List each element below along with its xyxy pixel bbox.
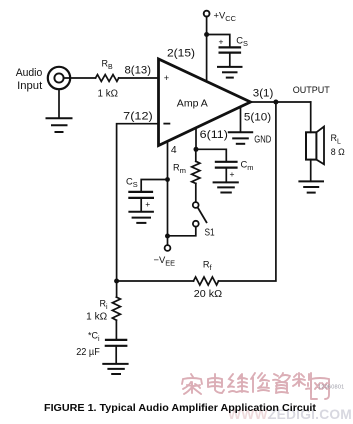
label 1 kOhm (Ri) [86, 311, 108, 322]
ground under speaker [299, 181, 323, 192]
svg-text:−VEE: −VEE [154, 254, 176, 268]
resistor Rm [192, 149, 200, 202]
plus input marker [164, 73, 169, 83]
svg-text:GND: GND [254, 135, 271, 146]
resistor RB [96, 75, 119, 82]
svg-text:+: + [230, 169, 235, 179]
node feedback junction [114, 279, 119, 284]
svg-text:1 kΩ: 1 kΩ [98, 89, 119, 100]
svg-text:8(13): 8(13) [125, 65, 152, 77]
label RB [102, 59, 114, 72]
node CS left junction [165, 177, 170, 182]
wire pin 6 down [195, 128, 197, 149]
wire junction to Rf [117, 280, 194, 282]
label pin 6(11) [200, 129, 228, 141]
char dian [208, 374, 224, 393]
plus mark CS top [219, 37, 224, 47]
wire Rf to output rail [219, 102, 276, 281]
watermark chinese characters [182, 373, 329, 399]
svg-text:CS: CS [126, 176, 138, 189]
svg-text:Cm: Cm [241, 159, 254, 172]
ground under CS left [129, 212, 153, 223]
svg-text:5(10): 5(10) [244, 112, 271, 124]
watermark www url [228, 407, 352, 422]
svg-text:Amp A: Amp A [177, 99, 208, 110]
speaker RL [306, 127, 324, 165]
-VEE terminal [165, 236, 171, 251]
svg-text:1 kΩ: 1 kΩ [86, 311, 108, 322]
wire pin 4 down to -VEE [167, 141, 169, 236]
svg-text:8 Ω: 8 Ω [331, 147, 345, 158]
svg-text:RL: RL [331, 133, 342, 146]
svg-text:22 µF: 22 µF [76, 347, 100, 358]
label CS left [126, 176, 138, 189]
svg-text:S1: S1 [205, 227, 215, 238]
wire op-amp output [251, 101, 311, 103]
svg-text:*Ci: *Ci [88, 331, 100, 344]
char jia [182, 374, 202, 394]
svg-text:Rf: Rf [203, 260, 213, 273]
VCC terminal [204, 11, 210, 17]
svg-text:2(15): 2(15) [167, 48, 195, 60]
char xiu [251, 373, 269, 392]
svg-text:+: + [219, 37, 224, 47]
label 1 kOhm (RB) [98, 89, 119, 100]
wire RB to op-amp + input [119, 77, 158, 79]
capacitor CS (supply bypass) [220, 47, 240, 66]
wire VCC to pin 2 [206, 17, 208, 82]
label Audio Input [16, 67, 43, 92]
node -VEE junction [165, 234, 170, 239]
audio input connector J1 [48, 67, 70, 89]
label GND [254, 135, 271, 146]
wire junction to CS left [141, 180, 167, 192]
resistor Rf [194, 277, 219, 285]
plus mark Cm [230, 169, 235, 179]
svg-text:4: 4 [171, 145, 177, 156]
label pin 3(1) [253, 88, 273, 100]
label pin 4 [171, 145, 177, 156]
label CS top [236, 35, 248, 48]
node pin 6 junction [194, 147, 199, 152]
label S1 [205, 227, 215, 238]
wire junction to CS top [207, 35, 230, 48]
label RL [331, 133, 342, 146]
node output junction [273, 100, 278, 105]
ground under CS top [218, 67, 242, 78]
svg-text:6(11): 6(11) [200, 129, 228, 141]
node VCC junction [204, 32, 209, 37]
label 20 kOhm [194, 289, 223, 300]
svg-text:3(1): 3(1) [253, 88, 273, 100]
char liao [293, 373, 311, 393]
plus mark CS left [145, 199, 150, 209]
wire op-amp minus input to left rail [117, 124, 158, 281]
svg-text:+VCC: +VCC [214, 10, 237, 24]
svg-text:Input: Input [17, 80, 42, 92]
label pin 8(13) [125, 65, 152, 77]
label OUTPUT [293, 85, 330, 95]
capacitor Ci [106, 340, 127, 364]
svg-text:RB: RB [102, 59, 114, 72]
ground under Cm [214, 182, 238, 192]
label 22 uF [76, 347, 100, 358]
char wang [311, 378, 329, 399]
wire connector to RB [64, 77, 96, 79]
minus input marker [164, 123, 169, 125]
label 8 Ohm [331, 147, 345, 158]
label *Ci [88, 331, 100, 344]
wire speaker to ground [310, 160, 312, 182]
svg-text:Ri: Ri [100, 299, 109, 312]
ground under connector [47, 89, 72, 132]
svg-text:12060801: 12060801 [318, 385, 345, 391]
svg-text:Audio: Audio [16, 67, 43, 79]
capacitor CS (VEE bypass) [129, 192, 153, 212]
wire pin 5 to ground [240, 107, 242, 131]
svg-text:OUTPUT: OUTPUT [293, 85, 330, 95]
wire pin6 node to Cm [196, 149, 226, 161]
svg-text:Rm: Rm [173, 163, 186, 176]
wire output down to speaker [310, 102, 312, 132]
label Cm [241, 159, 254, 172]
ground pin 5 [229, 132, 252, 144]
svg-text:+: + [164, 73, 169, 83]
label Amp A [177, 99, 208, 110]
switch S1 [168, 202, 207, 236]
svg-text:20 kΩ: 20 kΩ [194, 289, 223, 300]
op-amp Amp A triangle [159, 59, 251, 146]
label +VCC [214, 10, 237, 24]
char wei [228, 374, 248, 392]
svg-text:FIGURE 1. Typical Audio Amplif: FIGURE 1. Typical Audio Amplifier Applic… [44, 403, 317, 414]
svg-text:+: + [145, 199, 150, 209]
label -VEE [154, 254, 176, 268]
svg-text:CS: CS [236, 35, 248, 48]
label pin 5(10) [244, 112, 271, 124]
label Ri [100, 299, 109, 312]
label pin 7(12) [123, 110, 153, 122]
svg-text:7(12): 7(12) [123, 110, 153, 122]
ground under Ci [103, 364, 127, 374]
capacitor Cm [216, 162, 237, 182]
label pin 2(15) [167, 48, 195, 60]
label Rf [203, 260, 213, 273]
resistor Ri [112, 284, 120, 340]
char zi [273, 373, 290, 393]
label Rm [173, 163, 186, 176]
